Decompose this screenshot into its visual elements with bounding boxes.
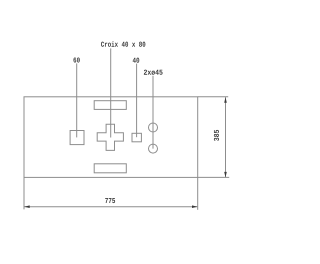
plate outline [24, 97, 198, 178]
extension line bottom left [23, 177, 25, 209]
arrow 775 right [192, 205, 198, 208]
square hole 60 [70, 131, 84, 145]
label 2xo45 [144, 70, 163, 75]
arrow 775 left [24, 205, 30, 208]
leader line 40 [136, 64, 138, 138]
hole circle lower 2xo45 [149, 144, 158, 153]
arrow 385 top [224, 97, 227, 103]
label 775 [105, 198, 115, 203]
leader line 60 [76, 63, 78, 137]
extension line bottom right [198, 176, 230, 178]
square hole 40 [132, 133, 141, 142]
slot bottom [94, 164, 126, 173]
cross cutout Croix 40 x 80 [97, 124, 123, 150]
slot top [94, 101, 126, 110]
extension line top right [198, 96, 229, 98]
dimension line 775 [25, 206, 198, 208]
label 385 rotated [214, 130, 219, 141]
leader line Croix [110, 48, 112, 137]
arrow 385 bottom [224, 172, 227, 178]
label 40 [133, 58, 140, 63]
label 60 [73, 57, 79, 62]
hole circle upper 2xo45 [149, 123, 158, 132]
leader line 2xo45 [152, 76, 154, 149]
dimension line 385 [225, 97, 227, 177]
label Croix 40 x 80 [101, 41, 145, 47]
extension line bottom right vertical [197, 177, 199, 209]
